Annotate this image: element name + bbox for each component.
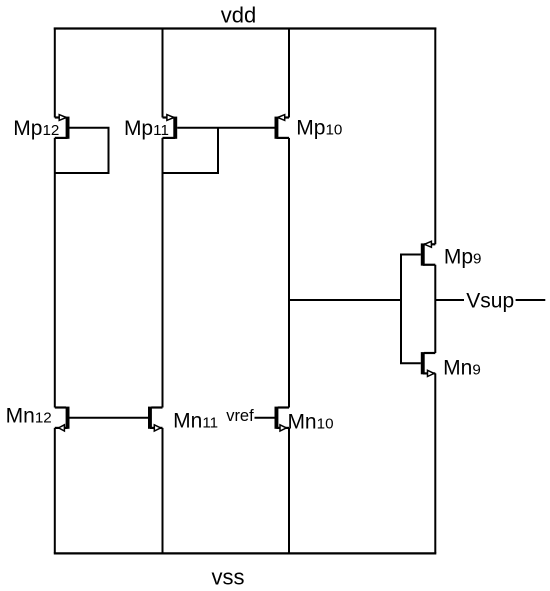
transistor Mn9 xyxy=(423,352,436,376)
transistor Mp11 xyxy=(163,115,176,139)
wire Mp9 gate to Mn9 gate xyxy=(401,255,421,364)
transistor Mp12 xyxy=(55,115,68,139)
wire vdd top rail xyxy=(54,27,437,29)
transistor Mn12 xyxy=(55,407,68,431)
svg-text:Mn10: Mn10 xyxy=(287,410,333,433)
svg-text:vref: vref xyxy=(226,407,254,425)
wire Vsup out xyxy=(516,299,546,301)
svg-text:Mp9: Mp9 xyxy=(444,246,482,269)
wire vss bottom rail xyxy=(54,552,437,554)
wire Mp11 gate to Mp10 gate xyxy=(177,127,274,129)
wire column 1 (Mp12/Mn12 branch) xyxy=(54,28,56,554)
wire drive node to gates xyxy=(289,299,401,301)
svg-text:Vsup: Vsup xyxy=(466,290,514,313)
wire vref to Mn10 gate xyxy=(255,417,275,419)
wire Mn12 gate to Mn11 gate xyxy=(70,417,149,419)
svg-text:Mp11: Mp11 xyxy=(124,117,169,140)
svg-text:Mn11: Mn11 xyxy=(173,409,218,432)
wire column 3 (Mp10/Mn10 branch) xyxy=(288,28,290,554)
svg-text:vss: vss xyxy=(212,565,245,590)
wire Mp12 gate-drain diode loop xyxy=(55,128,108,173)
transistor Mn10 xyxy=(276,407,289,431)
wire column 2 (Mp11/Mn11 branch) xyxy=(162,28,164,554)
transistor Mn11 xyxy=(150,407,163,431)
wire output node to Vsup xyxy=(435,299,464,301)
svg-text:Mp12: Mp12 xyxy=(13,117,59,140)
svg-text:Mp10: Mp10 xyxy=(296,116,342,139)
svg-text:Mn9: Mn9 xyxy=(443,356,481,379)
svg-text:Mn12: Mn12 xyxy=(6,404,52,427)
wire column 4 (Mp9/Mn9 branch) xyxy=(434,28,436,554)
transistor Mp10 xyxy=(276,115,289,139)
wire Mp11 gate-drain diode drop xyxy=(163,128,218,173)
svg-text:vdd: vdd xyxy=(221,2,256,27)
transistor Mp9 xyxy=(423,241,436,265)
